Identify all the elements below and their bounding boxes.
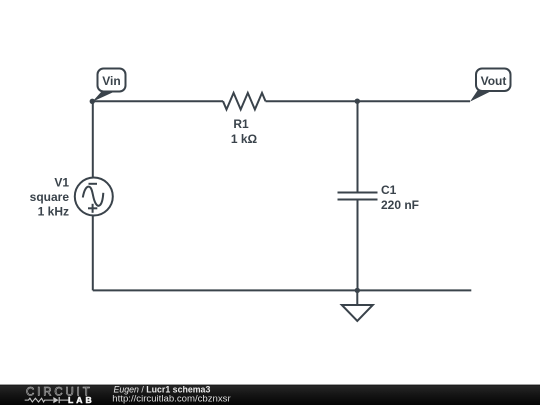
- junction bottom (C1/ground): [355, 288, 360, 293]
- wire C1 bottom lead: [357, 200, 359, 291]
- capacitor C1 bottom plate: [338, 199, 378, 201]
- flag Vin box: [98, 69, 126, 92]
- svg-text:LAB: LAB: [68, 395, 95, 405]
- svg-text:Vin: Vin: [102, 74, 120, 88]
- svg-text:http://circuitlab.com/cbznxsr: http://circuitlab.com/cbznxsr: [112, 393, 231, 404]
- wire top left segment (Vin node to R1): [93, 100, 223, 102]
- V1 sine glyph: [83, 187, 104, 206]
- svg-text:1 kΩ: 1 kΩ: [231, 132, 258, 146]
- V1 minus sign: [89, 183, 98, 185]
- wire C1 top lead: [357, 101, 359, 192]
- flag Vin tail: [92, 90, 118, 102]
- svg-text:Vout: Vout: [481, 74, 507, 88]
- capacitor C1 top plate: [338, 192, 378, 194]
- svg-text:V1: V1: [54, 176, 69, 190]
- ground symbol: [342, 305, 373, 321]
- logo resistor squiggle: [25, 398, 53, 402]
- svg-text:220 nF: 220 nF: [381, 198, 419, 212]
- logo connector wire: [60, 399, 69, 401]
- node Vin dot: [90, 99, 95, 104]
- svg-text:R1: R1: [233, 117, 249, 131]
- footer bar: [0, 385, 540, 405]
- svg-text:square: square: [30, 190, 70, 204]
- voltage source V1 circle: [75, 178, 113, 216]
- flag Vout box: [476, 69, 511, 92]
- wire left rail upper (Vin to V1 top): [92, 101, 94, 178]
- resistor R1: [223, 93, 266, 110]
- V1 plus sign: [88, 207, 97, 209]
- svg-text:1 kHz: 1 kHz: [38, 205, 69, 219]
- wire bottom rail: [93, 289, 472, 291]
- wire left rail lower (V1 bottom to ground rail): [92, 215, 94, 290]
- logo diode symbol: [53, 397, 58, 403]
- junction top (R1/C1/Vout): [355, 99, 360, 104]
- ground stub wire: [356, 290, 358, 305]
- svg-text:C1: C1: [381, 183, 397, 197]
- wire top right segment (R1 to Vout): [266, 100, 471, 102]
- flag Vout tail: [470, 90, 494, 102]
